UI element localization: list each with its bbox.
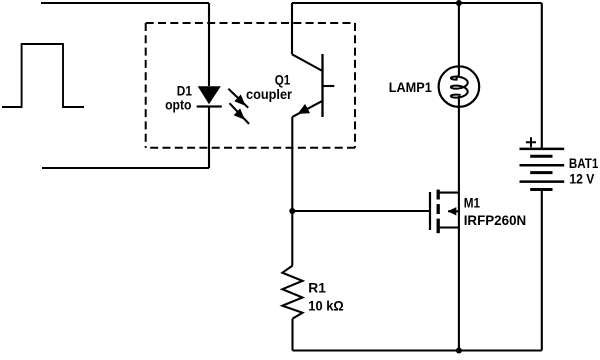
light arrow 1 shaft: [228, 89, 248, 108]
svg-text:opto: opto: [165, 97, 191, 113]
transistor Q1 base bar: [321, 54, 323, 117]
wire R1 bottom to ground bus: [291, 319, 293, 351]
LED D1 triangle: [198, 86, 221, 104]
wire lamp bottom / M1 drain-source vertical: [458, 96, 460, 351]
node junction gate: [289, 208, 295, 214]
svg-text:M1: M1: [464, 195, 480, 211]
M1 body arrow head: [448, 207, 457, 215]
lamp LAMP1 circle: [439, 66, 480, 107]
wire gate lead to M1: [292, 210, 430, 212]
wire LED anode vertical: [208, 3, 210, 86]
battery BAT1 plate short 3: [530, 188, 552, 191]
svg-text:IRFP260N: IRFP260N: [464, 212, 527, 228]
battery BAT1 plate short 1: [530, 155, 552, 158]
wire bottom bus: [293, 349, 542, 351]
battery BAT1 plate long 3: [520, 180, 565, 183]
transistor Q1 collector diagonal: [292, 54, 323, 71]
battery BAT1 plate long 2: [520, 164, 565, 167]
battery BAT1 plate short 2: [530, 171, 552, 174]
battery plus sign: [526, 137, 536, 147]
node junction top bus to lamp: [456, 0, 462, 6]
wire bottom-left return: [42, 167, 209, 169]
wire top-left from pulse source to LED anode: [41, 2, 209, 4]
transistor Q1 base stub: [323, 85, 335, 87]
LED D1 cathode bar: [197, 105, 222, 107]
Q1 emitter arrow head: [298, 104, 311, 114]
wire lamp top lead: [458, 3, 460, 76]
light arrow 2 shaft: [230, 103, 250, 124]
wire Q1 emitter down to gate node: [291, 117, 293, 266]
wire LED cathode vertical down to bottom-left wire: [208, 107, 210, 169]
mosfet M1 channel bar drain: [437, 190, 440, 200]
battery BAT1 negative wire: [541, 190, 543, 351]
svg-text:LAMP1: LAMP1: [389, 79, 432, 95]
optocoupler dashed enclosure: [146, 23, 355, 148]
resistor R1 zigzag: [282, 266, 302, 319]
transistor Q1 emitter diagonal: [292, 101, 322, 117]
battery BAT1 positive wire: [541, 3, 543, 149]
mosfet M1 channel bar source: [437, 219, 440, 234]
svg-text:12 V: 12 V: [569, 170, 595, 186]
svg-text:10 kΩ: 10 kΩ: [308, 297, 343, 313]
wire Q1 collector vertical from top wire: [291, 3, 293, 54]
svg-text:R1: R1: [308, 280, 326, 296]
mosfet M1 body lead: [448, 210, 459, 212]
light arrow 1 head: [234, 95, 245, 106]
svg-text:coupler: coupler: [246, 86, 292, 102]
mosfet M1 channel bar middle: [437, 204, 440, 214]
svg-text:Q1: Q1: [275, 71, 291, 87]
mosfet M1 gate bar: [429, 192, 431, 230]
battery BAT1 plate long 1: [520, 148, 565, 151]
mosfet M1 source lead: [438, 226, 459, 228]
node junction bottom bus: [456, 348, 462, 354]
svg-text:BAT1: BAT1: [569, 155, 599, 171]
pulse waveform annotation: [2, 44, 84, 107]
lamp LAMP1 filament coil: [451, 76, 468, 98]
mosfet M1 drain lead: [438, 192, 459, 194]
wire top-right bus to battery positive: [292, 2, 542, 4]
light arrow 2 head: [234, 108, 245, 119]
